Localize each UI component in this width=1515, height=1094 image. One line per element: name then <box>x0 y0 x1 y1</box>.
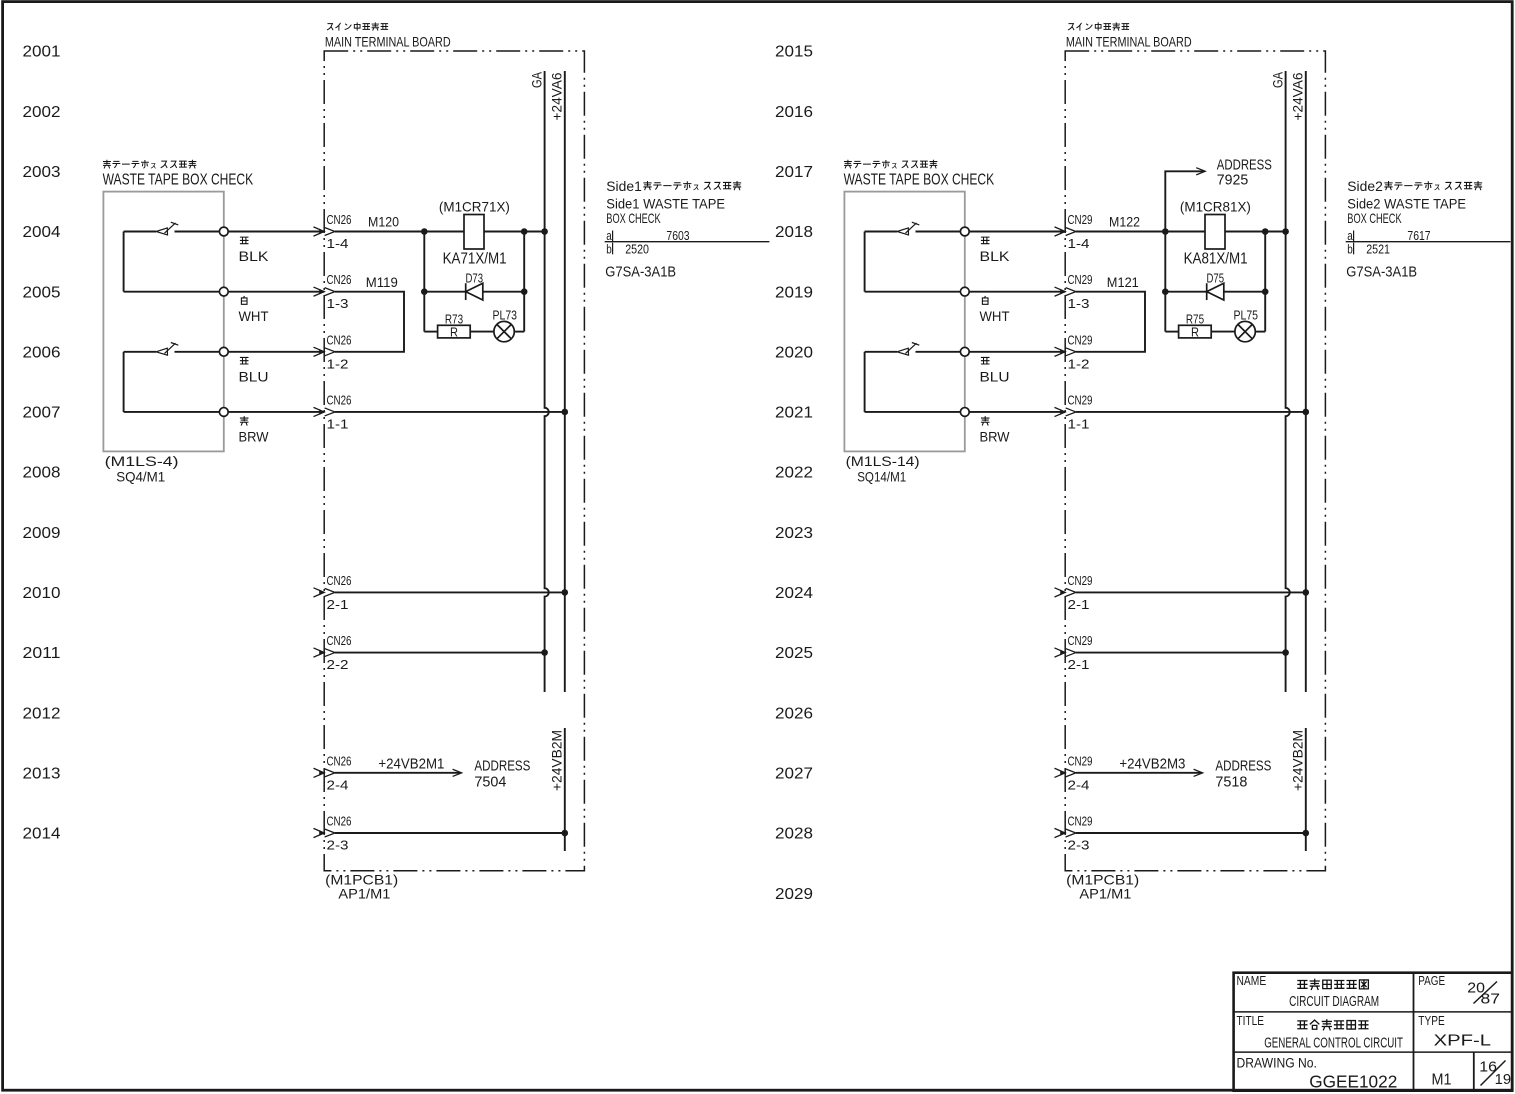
wire color label BLK <box>981 237 989 244</box>
svg-text:2-2: 2-2 <box>327 658 349 672</box>
connector CN29 pin 1-4 <box>1055 227 1066 236</box>
main terminal board boundary box (left) <box>324 51 584 871</box>
svg-text:2001: 2001 <box>23 44 61 61</box>
connector CN26 pin 1-4 <box>314 227 325 236</box>
wire: internal branch rows 3-4 <box>123 352 125 412</box>
svg-text:2002: 2002 <box>23 104 61 121</box>
svg-text:CN26: CN26 <box>327 333 352 347</box>
connector CN26 pin 2-1 <box>314 588 325 597</box>
wire M121 loop rows 2019-2020 <box>1076 292 1145 352</box>
svg-text:2018: 2018 <box>775 224 813 241</box>
svg-text:a: a <box>606 229 612 243</box>
wire from terminal to connector CN29 row 2019 <box>965 291 1065 293</box>
svg-text:2025: 2025 <box>775 645 813 662</box>
junction node right branch top <box>1262 228 1269 235</box>
svg-text:CIRCUIT DIAGRAM: CIRCUIT DIAGRAM <box>1289 993 1379 1010</box>
svg-text:Side1: Side1 <box>606 178 642 194</box>
relay coil KA81X/M1 (M1CR81X) <box>1205 215 1225 250</box>
title 電気回路線図 <box>1298 980 1307 988</box>
net +24VB2M line <box>564 728 566 851</box>
svg-text:R73: R73 <box>445 312 463 326</box>
svg-text:G7SA-3A1B: G7SA-3A1B <box>1346 264 1417 281</box>
wire relay right branch vertical <box>523 232 525 332</box>
wire row 2010 to +24VA6 <box>335 591 565 593</box>
svg-text:CN26: CN26 <box>327 574 352 588</box>
svg-text:2014: 2014 <box>23 826 61 843</box>
svg-text:2-1: 2-1 <box>1068 598 1090 612</box>
wire row 2019 <box>865 291 965 293</box>
wire to ADDRESS 7925 <box>1165 171 1203 231</box>
svg-text:CN26: CN26 <box>327 393 352 407</box>
svg-text:CN29: CN29 <box>1068 634 1093 648</box>
svg-text:7925: 7925 <box>1217 171 1249 188</box>
wire row 2011 to GA <box>335 652 545 654</box>
svg-text:D75: D75 <box>1207 272 1225 286</box>
svg-text:2021: 2021 <box>775 405 813 422</box>
svg-text:(M1LS-4): (M1LS-4) <box>105 453 179 469</box>
wire +24VB2M1 to address <box>335 772 460 774</box>
wire row 2025 to GA <box>1076 652 1286 654</box>
svg-text:PL73: PL73 <box>493 309 518 323</box>
svg-text:KA81X/M1: KA81X/M1 <box>1184 251 1248 268</box>
svg-text:19: 19 <box>1495 1071 1512 1088</box>
net +24VB2M line <box>1305 728 1307 851</box>
svg-text:2004: 2004 <box>23 224 61 241</box>
svg-text:WHT: WHT <box>980 308 1010 324</box>
title block frame <box>1234 973 1513 1091</box>
wire from terminal to connector CN26 row 2007 <box>224 411 324 413</box>
svg-text:GA: GA <box>529 71 545 88</box>
svg-text:XPF-L: XPF-L <box>1434 1032 1492 1049</box>
connector CN29 pin 2-3 <box>1055 828 1066 837</box>
svg-text:SQ14/M1: SQ14/M1 <box>857 469 906 485</box>
connector CN26 pin 1-1 <box>314 407 325 416</box>
svg-text:CN26: CN26 <box>327 815 352 829</box>
svg-text:1-3: 1-3 <box>1068 297 1090 311</box>
label 残テープボックス確認 <box>103 160 110 168</box>
connector CN26 pin 2-3 <box>314 828 325 837</box>
wire color label BLU <box>981 357 989 364</box>
svg-text:2016: 2016 <box>775 104 813 121</box>
title block column divider <box>1413 973 1415 1091</box>
svg-text:7504: 7504 <box>474 773 506 790</box>
wire color label BRW <box>240 417 248 425</box>
svg-text:CN29: CN29 <box>1068 273 1093 287</box>
svg-text:D73: D73 <box>466 272 484 286</box>
resistor R75 <box>1165 331 1178 333</box>
svg-text:M120: M120 <box>368 213 399 229</box>
terminal circle row 2019 <box>960 287 969 296</box>
wire: internal branch rows 1-2 <box>123 232 125 292</box>
svg-text:WASTE TAPE BOX CHECK: WASTE TAPE BOX CHECK <box>103 172 254 189</box>
svg-text:2-4: 2-4 <box>1068 778 1090 792</box>
svg-text:2521: 2521 <box>1366 242 1390 256</box>
svg-text:PL75: PL75 <box>1234 309 1259 323</box>
svg-text:2029: 2029 <box>775 886 813 903</box>
wire row 2024 to +24VA6 <box>1076 591 1306 593</box>
svg-text:BOX CHECK: BOX CHECK <box>606 210 661 226</box>
label 残テープボックス確認 <box>844 160 851 168</box>
relay coil KA71X/M1 (M1CR71X) <box>464 215 484 250</box>
resistor R73 <box>424 331 437 333</box>
terminal circle row 2006 <box>219 347 228 356</box>
terminal circle row 2005 <box>219 287 228 296</box>
terminal circle row 2004 <box>219 227 228 236</box>
wire from terminal to connector CN29 row 2021 <box>965 411 1065 413</box>
svg-text:2009: 2009 <box>23 525 61 542</box>
wire: internal branch rows 3-4 <box>864 352 866 412</box>
terminal circle row 2018 <box>960 227 969 236</box>
wire M122 (row 2018) <box>1076 231 1205 233</box>
svg-text:CN29: CN29 <box>1068 333 1093 347</box>
title block row3 divider <box>1473 1052 1475 1091</box>
svg-text:AP1/M1: AP1/M1 <box>1079 886 1131 902</box>
title block row dividers <box>1234 1011 1513 1013</box>
svg-text:R: R <box>450 326 458 340</box>
wire +24VB2M3 to address <box>1076 772 1201 774</box>
pilot lamp PL75 <box>1235 321 1255 341</box>
svg-text:(M1LS-14): (M1LS-14) <box>846 453 920 469</box>
svg-text:+24VA6: +24VA6 <box>1290 72 1306 120</box>
wire relay left branch vertical <box>423 232 425 332</box>
connector CN26 pin 2-2 <box>314 648 325 657</box>
junction node left branch top <box>421 228 428 235</box>
connector CN29 pin 2-1 <box>1055 588 1066 597</box>
svg-text:2026: 2026 <box>775 705 813 722</box>
svg-text:CN26: CN26 <box>327 634 352 648</box>
svg-text:BLK: BLK <box>980 248 1011 264</box>
svg-text:2019: 2019 <box>775 284 813 301</box>
svg-text:BLK: BLK <box>239 248 270 264</box>
svg-text:1-3: 1-3 <box>327 297 349 311</box>
svg-text:MAIN TERMINAL BOARD: MAIN TERMINAL BOARD <box>325 34 451 50</box>
svg-text:2020: 2020 <box>775 344 813 361</box>
svg-text:2008: 2008 <box>23 465 61 482</box>
svg-text:CN26: CN26 <box>327 754 352 768</box>
diode D75 <box>1165 291 1206 293</box>
svg-text:G7SA-3A1B: G7SA-3A1B <box>605 264 676 281</box>
svg-text:1-2: 1-2 <box>1068 357 1090 371</box>
svg-text:GGEE1022: GGEE1022 <box>1309 1072 1397 1092</box>
svg-text:2-1: 2-1 <box>1068 658 1090 672</box>
main terminal board boundary box (right) <box>1065 51 1325 871</box>
svg-text:a: a <box>1347 229 1353 243</box>
svg-text:M122: M122 <box>1109 213 1140 229</box>
svg-text:CN29: CN29 <box>1068 815 1093 829</box>
svg-text:2-1: 2-1 <box>327 598 349 612</box>
svg-text:BRW: BRW <box>980 428 1011 444</box>
svg-text:CN26: CN26 <box>327 213 352 227</box>
svg-text:2015: 2015 <box>775 44 813 61</box>
connector CN29 pin 1-2 <box>1055 347 1066 356</box>
wire from terminal to connector CN29 row 2020 <box>965 351 1065 353</box>
svg-text:M1: M1 <box>1432 1071 1452 1088</box>
net +24VA6 bus line <box>1305 71 1307 692</box>
svg-text:87: 87 <box>1481 991 1501 1008</box>
wire color label BLU <box>240 357 248 364</box>
limit switch box SQ14/M1 (gray outline) <box>844 192 964 452</box>
limit switch contact (row 2006) <box>124 351 156 353</box>
wire from terminal to connector CN26 row 2006 <box>224 351 324 353</box>
svg-text:7617: 7617 <box>1407 229 1430 243</box>
net +24VA6 bus line <box>564 71 566 692</box>
limit switch box SQ4/M1 (gray outline) <box>103 192 223 452</box>
wire from terminal to connector CN29 row 2018 <box>965 231 1065 233</box>
svg-text:b: b <box>606 242 612 256</box>
svg-text:+24VB2M1: +24VB2M1 <box>378 755 444 772</box>
wire row 2021 <box>865 411 965 413</box>
svg-text:2520: 2520 <box>625 242 649 256</box>
svg-text:GA: GA <box>1270 71 1286 88</box>
wire row 2021 to +24VA6 <box>1076 411 1306 413</box>
net GA bus line with hops at rows 2007/2010 <box>1286 71 1290 692</box>
svg-text:1-4: 1-4 <box>1068 237 1090 251</box>
terminal circle row 2021 <box>960 408 969 417</box>
wire M120 (row 2004) <box>335 231 464 233</box>
svg-text:2003: 2003 <box>23 164 61 181</box>
connector CN26 pin 1-2 <box>314 347 325 356</box>
svg-text:M119: M119 <box>366 274 398 290</box>
limit switch contact (row 2018) <box>865 231 897 233</box>
svg-text:WASTE TAPE BOX CHECK: WASTE TAPE BOX CHECK <box>844 172 995 189</box>
svg-text:1-1: 1-1 <box>327 417 349 431</box>
wire row 2014 to +24VB2M <box>335 832 565 834</box>
wire row 2028 to +24VB2M <box>1076 832 1306 834</box>
svg-text:b: b <box>1347 242 1353 256</box>
junction node left branch top <box>1162 228 1169 235</box>
svg-text:+24VB2M: +24VB2M <box>549 730 565 791</box>
svg-text:2012: 2012 <box>23 705 61 722</box>
svg-text:MAIN TERMINAL BOARD: MAIN TERMINAL BOARD <box>1066 34 1192 50</box>
terminal circle row 2007 <box>219 408 228 417</box>
limit switch contact (row 2020) <box>865 351 897 353</box>
junction node right branch top <box>521 228 528 235</box>
wire row 2007 to +24VA6 <box>335 411 565 413</box>
svg-text:2028: 2028 <box>775 826 813 843</box>
wire color label WHT <box>982 296 988 304</box>
wire relay left branch vertical <box>1164 232 1166 332</box>
svg-text:2-3: 2-3 <box>327 839 349 853</box>
wire color label BRW <box>981 417 989 425</box>
connector CN29 pin 1-3 <box>1055 287 1066 296</box>
svg-text:1-2: 1-2 <box>327 357 349 371</box>
svg-text:2-3: 2-3 <box>1068 839 1090 853</box>
svg-text:2017: 2017 <box>775 164 813 181</box>
svg-text:NAME: NAME <box>1237 973 1267 988</box>
connector CN29 pin 2-1 <box>1055 648 1066 657</box>
wire from terminal to connector CN26 row 2004 <box>224 231 324 233</box>
connector CN29 pin 2-4 <box>1055 768 1066 777</box>
wire: internal branch rows 1-2 <box>864 232 866 292</box>
svg-text:CN29: CN29 <box>1068 213 1093 227</box>
junction on GA bus <box>1282 228 1289 235</box>
svg-text:7518: 7518 <box>1215 773 1247 790</box>
svg-text:2011: 2011 <box>23 645 61 662</box>
wire color label WHT <box>241 296 247 304</box>
wire row 2007 <box>124 411 224 413</box>
svg-text:BLU: BLU <box>980 368 1010 384</box>
svg-text:+24VB2M: +24VB2M <box>1290 730 1306 791</box>
terminal circle row 2020 <box>960 347 969 356</box>
svg-text:CN26: CN26 <box>327 273 352 287</box>
svg-text:CN29: CN29 <box>1068 574 1093 588</box>
title 総合制御回路 <box>1298 1021 1307 1029</box>
svg-text:CN29: CN29 <box>1068 754 1093 768</box>
svg-text:BRW: BRW <box>239 428 270 444</box>
connector CN26 pin 1-3 <box>314 287 325 296</box>
svg-text:SQ4/M1: SQ4/M1 <box>116 469 165 485</box>
label メイン中継基板 <box>1068 24 1073 30</box>
svg-text:TITLE: TITLE <box>1237 1013 1265 1028</box>
label メイン中継基板 <box>327 24 332 30</box>
net GA bus line with hops at rows 2007/2010 <box>545 71 549 692</box>
svg-text:BOX CHECK: BOX CHECK <box>1347 210 1402 226</box>
svg-text:2024: 2024 <box>775 585 813 602</box>
wire relay right branch vertical <box>1264 232 1266 332</box>
svg-text:1-4: 1-4 <box>327 237 349 251</box>
svg-text:+24VB2M3: +24VB2M3 <box>1119 755 1185 772</box>
svg-text:GENERAL CONTROL CIRCUIT: GENERAL CONTROL CIRCUIT <box>1264 1034 1403 1051</box>
svg-text:2023: 2023 <box>775 525 813 542</box>
svg-text:WHT: WHT <box>239 308 269 324</box>
svg-text:R75: R75 <box>1186 312 1204 326</box>
svg-text:2027: 2027 <box>775 765 813 782</box>
svg-text:2005: 2005 <box>23 284 61 301</box>
svg-text:AP1/M1: AP1/M1 <box>338 886 390 902</box>
svg-text:2022: 2022 <box>775 465 813 482</box>
svg-text:BLU: BLU <box>239 368 269 384</box>
svg-text:M121: M121 <box>1107 274 1139 290</box>
wire row 2005 <box>124 291 224 293</box>
connector CN29 pin 1-1 <box>1055 407 1066 416</box>
limit switch contact (row 2004) <box>124 231 156 233</box>
svg-text:ADDRESS: ADDRESS <box>474 758 530 775</box>
svg-text:2-4: 2-4 <box>327 778 349 792</box>
svg-text:2013: 2013 <box>23 765 61 782</box>
svg-text:(M1CR81X): (M1CR81X) <box>1180 199 1251 215</box>
wire M119 loop rows 2005-2006 <box>335 292 404 352</box>
svg-text:DRAWING No.: DRAWING No. <box>1237 1055 1317 1070</box>
svg-text:(M1CR71X): (M1CR71X) <box>439 199 510 215</box>
diode D73 <box>424 291 465 293</box>
svg-text:TYPE: TYPE <box>1418 1013 1445 1028</box>
svg-text:2010: 2010 <box>23 585 61 602</box>
svg-text:ADDRESS: ADDRESS <box>1215 758 1271 775</box>
junction on GA bus <box>541 228 548 235</box>
svg-text:R: R <box>1191 326 1199 340</box>
svg-text:PAGE: PAGE <box>1418 973 1445 988</box>
svg-text:2006: 2006 <box>23 344 61 361</box>
svg-text:CN29: CN29 <box>1068 393 1093 407</box>
wire from terminal to connector CN26 row 2005 <box>224 291 324 293</box>
wire color label BLK <box>240 237 248 244</box>
svg-text:1-1: 1-1 <box>1068 417 1090 431</box>
svg-text:2007: 2007 <box>23 405 61 422</box>
svg-text:7603: 7603 <box>666 229 689 243</box>
svg-text:Side2: Side2 <box>1347 178 1383 194</box>
svg-text:KA71X/M1: KA71X/M1 <box>443 251 507 268</box>
svg-text:+24VA6: +24VA6 <box>549 72 565 120</box>
connector CN26 pin 2-4 <box>314 768 325 777</box>
pilot lamp PL73 <box>494 321 514 341</box>
